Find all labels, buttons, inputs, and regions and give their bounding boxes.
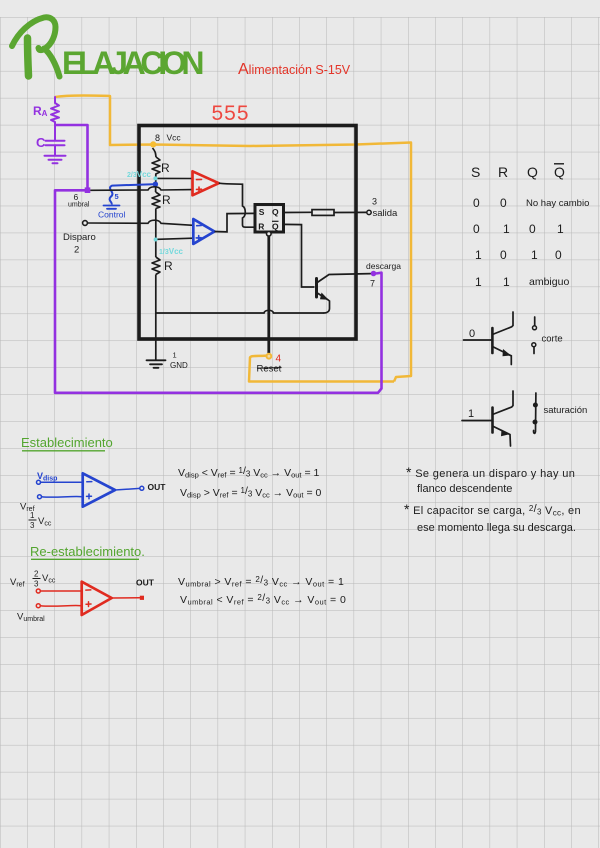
wire pin8 to divider xyxy=(153,148,157,157)
svg-text:umbral: umbral xyxy=(68,202,90,209)
node control (blue dot) xyxy=(153,182,158,187)
svg-text:R: R xyxy=(162,193,171,207)
svg-text:Re-establecimiento.: Re-establecimiento. xyxy=(30,544,145,559)
op-amp comparator (blue, establecimiento) xyxy=(37,473,144,506)
svg-text:ese momento llega su descarga.: ese momento llega su descarga. xyxy=(417,522,576,534)
title RELAJACION xyxy=(12,17,60,76)
node pin 4 (orange dot) xyxy=(267,354,272,359)
latch U2 (S-R) xyxy=(255,205,284,233)
svg-text:No hay cambio: No hay cambio xyxy=(526,198,589,209)
switch open (corte) xyxy=(532,317,537,354)
ground (below C, purple) xyxy=(45,156,66,164)
node junction purple (pin6/umbral tie) xyxy=(85,187,91,193)
resistor (output, box style) xyxy=(312,210,334,216)
svg-text:0: 0 xyxy=(500,196,507,210)
svg-text:C: C xyxy=(36,135,46,150)
svg-text:Establecimiento: Establecimiento xyxy=(21,435,113,450)
svg-text:2: 2 xyxy=(74,245,79,256)
svg-text:1: 1 xyxy=(557,222,564,236)
transistor T-corte xyxy=(464,312,514,365)
node disparo terminal (open circle) xyxy=(83,221,88,226)
svg-text:corte: corte xyxy=(542,334,563,345)
svg-text:7: 7 xyxy=(370,279,375,289)
svg-text:1: 1 xyxy=(503,222,510,236)
wire 1/3Vcc node to comparator B plus xyxy=(158,238,194,239)
svg-text:ambiguo: ambiguo xyxy=(529,276,569,288)
svg-text:GND: GND xyxy=(170,361,188,370)
svg-text:0: 0 xyxy=(473,222,480,236)
svg-text:OUT: OUT xyxy=(136,578,155,588)
svg-text:saturación: saturación xyxy=(544,405,588,416)
svg-text:0: 0 xyxy=(555,248,562,262)
wire Vcc (yellow) from RA top through pin 8 to reset rail xyxy=(55,95,411,381)
svg-text:flanco descendente: flanco descendente xyxy=(417,483,512,495)
svg-text:descarga: descarga xyxy=(366,261,401,271)
svg-text:OUT: OUT xyxy=(148,482,167,492)
svg-text:3: 3 xyxy=(30,521,35,530)
svg-text:Q: Q xyxy=(272,207,279,217)
wire divider node segment xyxy=(155,177,157,193)
svg-text:0: 0 xyxy=(529,222,536,236)
svg-text:8: 8 xyxy=(155,133,160,143)
node 2/3 Vcc (cyan dot) xyxy=(153,176,157,180)
svg-text:Reset: Reset xyxy=(257,364,282,375)
wire divider middle segment xyxy=(155,209,157,258)
node 1/3 Vcc (cyan dot) xyxy=(154,238,158,242)
wire Reset pull (orange) from pin 4 xyxy=(249,356,394,382)
wire divider to GND xyxy=(155,275,157,361)
svg-text:Q: Q xyxy=(527,164,538,180)
svg-text:1: 1 xyxy=(475,275,482,289)
svg-text:Q: Q xyxy=(272,222,279,232)
node pin 3 salida (open circle) xyxy=(367,210,371,214)
ground (control, blue) xyxy=(104,206,120,209)
svg-text:1/3Vcc: 1/3Vcc xyxy=(159,247,184,256)
svg-text:R: R xyxy=(258,222,264,232)
svg-text:Control: Control xyxy=(98,210,126,220)
wire latch to pin 4 reset xyxy=(267,236,270,353)
op-amp comparator (red, re-establecimiento) xyxy=(36,582,139,615)
capacitor C (purple) xyxy=(46,125,65,156)
transistor Q1 (discharge) xyxy=(317,274,371,313)
resistor R (top of divider) xyxy=(152,157,160,177)
node pin 8 (orange dot) xyxy=(150,141,156,147)
resistor R (middle of divider) xyxy=(152,192,160,209)
svg-text:6: 6 xyxy=(74,192,79,202)
wire resistor to pin 3 xyxy=(334,211,367,213)
svg-text:Disparo: Disparo xyxy=(63,232,96,243)
wire disparo pin 2 to comparator B minus (hops divider) xyxy=(87,220,193,225)
ground (pin 1, black) xyxy=(147,360,166,368)
svg-text:S: S xyxy=(259,207,265,217)
svg-text:2: 2 xyxy=(34,570,39,579)
svg-text:3: 3 xyxy=(372,197,377,207)
svg-text:Vcc: Vcc xyxy=(167,133,182,143)
555 IC boundary xyxy=(139,126,356,340)
svg-text:1: 1 xyxy=(173,351,177,360)
wire latch Qbar to transistor base xyxy=(284,224,315,287)
wire 2/3Vcc node to comparator A minus xyxy=(158,177,193,179)
svg-text:Q: Q xyxy=(554,164,565,180)
svg-text:1: 1 xyxy=(475,248,482,262)
resistor RA (purple) xyxy=(51,97,59,125)
svg-text:1: 1 xyxy=(468,408,474,420)
svg-text:S: S xyxy=(471,164,480,180)
wire emitter/divider ground rail (hops reset wire) xyxy=(156,310,324,313)
svg-text:1: 1 xyxy=(503,275,510,289)
wire umbral pin 6 to comparator A plus (hops divider) xyxy=(90,187,192,190)
svg-text:5: 5 xyxy=(115,192,119,201)
svg-text:R: R xyxy=(498,164,508,180)
wire control (blue) to pin 5 xyxy=(110,184,153,204)
op-amp comparator A (red, threshold) xyxy=(193,171,219,195)
wire comparator B output to latch S input xyxy=(215,213,256,232)
svg-text:0: 0 xyxy=(500,248,507,262)
svg-text:R: R xyxy=(164,259,173,273)
node pin 7 descarga (purple dot) xyxy=(371,271,377,277)
svg-text:salida: salida xyxy=(373,208,399,219)
svg-text:0: 0 xyxy=(473,196,480,210)
op-amp comparator B (blue, trigger) xyxy=(193,219,214,244)
wire discharge net (purple) from pin 7 around to RA/C junction xyxy=(55,125,382,393)
node latch bottom (inverting bubble) xyxy=(267,232,272,237)
svg-text:ELAJACION: ELAJACION xyxy=(62,45,204,81)
svg-text:R: R xyxy=(161,161,170,175)
svg-text:0: 0 xyxy=(469,328,475,340)
resistor R (bottom of divider) xyxy=(152,257,160,275)
svg-text:1: 1 xyxy=(531,248,538,262)
svg-text:Alimentación S-15V: Alimentación S-15V xyxy=(238,61,351,78)
wire comparator A output to latch R input (hops S wire) xyxy=(219,183,255,227)
transistor T-saturacion xyxy=(462,391,513,446)
switch closed (saturacion) xyxy=(534,393,536,433)
svg-text:555: 555 xyxy=(212,102,250,125)
svg-text:1: 1 xyxy=(30,511,35,520)
wire latch Q to output resistor xyxy=(284,211,313,213)
svg-text:3: 3 xyxy=(34,580,39,589)
svg-text:2/3Vcc: 2/3Vcc xyxy=(127,170,152,179)
